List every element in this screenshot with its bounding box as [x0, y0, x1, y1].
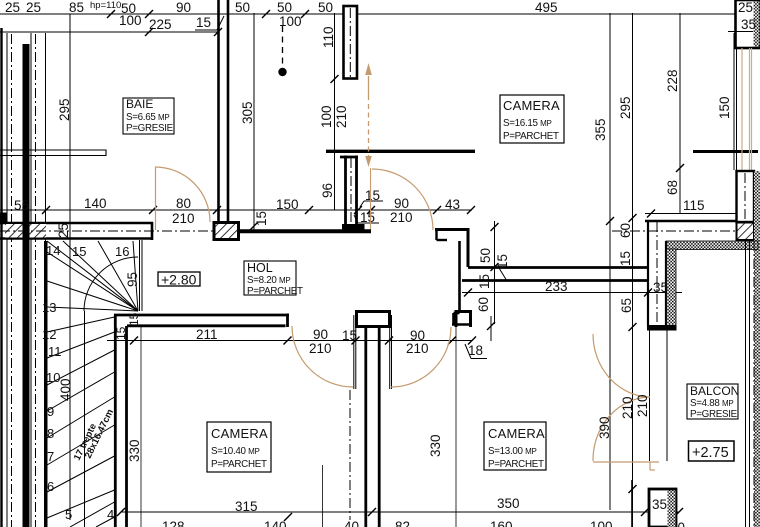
- balcony window (west): [650, 330, 668, 461]
- door jamb step: [437, 230, 448, 240]
- tan direction arrows: [368, 76, 370, 158]
- svg-text:13: 13: [42, 300, 56, 315]
- dim line x=254 (305): [253, 13, 255, 230]
- svg-text:8: 8: [47, 426, 54, 441]
- svg-text:15: 15: [618, 251, 633, 266]
- right side dim lines vertical: [610, 13, 680, 527]
- svg-text:65: 65: [619, 298, 634, 313]
- svg-text:BALCON: BALCON: [690, 384, 739, 398]
- svg-text:390: 390: [597, 416, 612, 439]
- right exterior wall bottom: [746, 241, 750, 527]
- svg-text:15: 15: [342, 328, 357, 343]
- ticks on y=210: [42, 206, 475, 214]
- svg-text:16: 16: [115, 244, 129, 259]
- svg-text:CAMERA: CAMERA: [211, 426, 268, 441]
- svg-text:6: 6: [47, 479, 54, 494]
- svg-text:100: 100: [119, 13, 142, 28]
- svg-text:BAIE: BAIE: [126, 97, 153, 111]
- right door jamb U wall: [455, 310, 473, 327]
- svg-text:+2.80: +2.80: [161, 272, 197, 288]
- svg-text:96: 96: [320, 183, 335, 198]
- wall x 344-358 (y 155-233): [340, 156, 358, 231]
- svg-text:68: 68: [665, 180, 680, 195]
- svg-text:211: 211: [196, 327, 218, 342]
- svg-text:S=4.88 MP: S=4.88 MP: [690, 398, 733, 409]
- BAIE south wall band: [0, 222, 153, 240]
- HOL north wall line: [239, 229, 371, 233]
- stairs lower flight treads: [47, 317, 115, 527]
- closet wall rectangle (top center): [344, 6, 358, 79]
- dim extension verticals bottom: [141, 326, 632, 527]
- top dim texts: [5, 0, 558, 32]
- svg-text:95: 95: [125, 272, 140, 287]
- svg-text:82: 82: [395, 519, 410, 527]
- CAMERA 10.40 west wall: [115, 314, 126, 527]
- svg-text:140: 140: [84, 196, 107, 211]
- leader under 15 (top): [195, 16, 224, 30]
- svg-text:hp=110: hp=110: [90, 0, 121, 11]
- balcony north wall band: [645, 220, 736, 223]
- svg-text:25: 25: [5, 0, 20, 15]
- svg-text:25: 25: [26, 0, 41, 15]
- right hatch square: [737, 223, 755, 241]
- svg-text:50: 50: [235, 0, 250, 15]
- svg-text:35: 35: [652, 497, 667, 512]
- left edge pier stub: [0, 213, 8, 224]
- svg-text:35: 35: [653, 280, 668, 295]
- axis dash-dot lines left: [12, 34, 36, 527]
- svg-text:495: 495: [535, 0, 558, 15]
- CAMERA 10.40 label box: [207, 422, 271, 472]
- axis dash-dot x=350 bottom: [349, 390, 351, 520]
- svg-text:14: 14: [46, 243, 60, 258]
- svg-text:210: 210: [172, 211, 195, 226]
- BAIE west wall face: [45, 33, 47, 241]
- svg-text:P=PARCHET: P=PARCHET: [488, 459, 544, 470]
- CAMERA 13.00 label box: [484, 422, 546, 470]
- svg-text:160: 160: [490, 519, 513, 527]
- shaft partition lines in BAIE: [0, 150, 106, 157]
- right lower door leaf + arc: [390, 315, 392, 389]
- ceiling lamp dashed line + dot: [282, 26, 284, 66]
- svg-text:295: 295: [57, 98, 72, 121]
- svg-text:5: 5: [65, 507, 72, 522]
- svg-text:15: 15: [196, 15, 211, 30]
- 15 leader lines: [499, 268, 521, 281]
- stair numbers: [42, 243, 140, 522]
- svg-text:15: 15: [127, 312, 141, 326]
- axis dash-dot y=231: [0, 230, 752, 232]
- svg-text:330: 330: [428, 434, 443, 457]
- 50 dim right of wall: [494, 221, 496, 324]
- svg-text:315: 315: [235, 499, 258, 514]
- svg-text:210: 210: [309, 341, 332, 356]
- svg-text:25: 25: [56, 223, 71, 238]
- svg-text:43: 43: [445, 197, 460, 212]
- svg-text:355: 355: [593, 118, 608, 141]
- svg-text:90: 90: [394, 196, 409, 211]
- hatch in BAIE south wall (left): [5, 224, 46, 238]
- stair walk line arc: [84, 257, 138, 311]
- balcony door (tan double casement): [593, 334, 659, 470]
- BAIE door arc: [155, 167, 210, 222]
- 295 label (left): [56, 98, 73, 401]
- 15 underlines near closet wall: [354, 201, 383, 223]
- svg-text:150: 150: [717, 96, 732, 119]
- svg-text:305: 305: [240, 101, 255, 124]
- top right wall line y=151: [693, 150, 758, 153]
- center-left wall (double): [219, 0, 229, 222]
- svg-text:210: 210: [635, 394, 650, 417]
- svg-text:100: 100: [319, 105, 334, 128]
- svg-text:S=16.15 MP: S=16.15 MP: [503, 118, 552, 129]
- T-wall between lower rooms: [357, 312, 390, 327]
- svg-text:140: 140: [264, 519, 287, 527]
- hatched pier: [214, 223, 239, 240]
- HOL east wall lower face: [452, 241, 470, 325]
- svg-text:+2.75: +2.75: [692, 445, 729, 461]
- right wall box y 171-222: [737, 171, 755, 222]
- svg-text:210: 210: [390, 210, 413, 225]
- svg-text:330: 330: [127, 439, 142, 462]
- svg-text:295: 295: [618, 96, 633, 119]
- main left wall (solid): [23, 44, 30, 527]
- +2.80 level box: [158, 272, 200, 288]
- svg-text:90: 90: [176, 0, 191, 15]
- svg-text:11: 11: [48, 344, 62, 359]
- HOL south wall band (left part): [114, 314, 289, 328]
- svg-text:85: 85: [69, 0, 84, 15]
- svg-text:P=GRESIE: P=GRESIE: [126, 123, 174, 134]
- svg-text:15: 15: [114, 326, 128, 340]
- svg-text:CAMERA: CAMERA: [488, 426, 545, 441]
- right stipple band: [754, 171, 760, 527]
- 18 leader: [465, 316, 491, 359]
- svg-text:55: 55: [14, 198, 29, 213]
- balcony west upper wall: [648, 221, 666, 326]
- stair walk line (vertical): [84, 311, 86, 527]
- svg-text:115: 115: [683, 198, 705, 213]
- svg-text:S=8.20 MP: S=8.20 MP: [247, 275, 290, 286]
- svg-text:12: 12: [42, 327, 56, 342]
- svg-text:233: 233: [545, 279, 568, 294]
- svg-text:P=PARCHET: P=PARCHET: [503, 131, 559, 142]
- 17 trepte text: [72, 408, 116, 463]
- svg-text:128: 128: [162, 519, 185, 527]
- svg-text:15: 15: [254, 211, 269, 226]
- svg-text:50: 50: [478, 248, 493, 263]
- right window (tan): [736, 48, 738, 170]
- svg-text:60: 60: [476, 297, 491, 312]
- 211 dim line: [107, 340, 472, 342]
- svg-text:40: 40: [344, 519, 359, 527]
- svg-text:210: 210: [620, 396, 635, 419]
- svg-text:100: 100: [590, 519, 613, 527]
- BAIE label box: [123, 97, 174, 134]
- svg-text:25: 25: [738, 0, 753, 15]
- svg-text:35: 35: [741, 17, 756, 32]
- stair inner rail: [140, 240, 143, 311]
- left lower door leaf + arc: [354, 315, 356, 389]
- svg-text:15: 15: [72, 244, 86, 259]
- 233 dim: [462, 292, 682, 294]
- bottom cut-off dim texts: [162, 519, 685, 527]
- HOL east wall upper: [435, 228, 470, 267]
- svg-text:50: 50: [318, 0, 333, 15]
- corridor wall band (233): [462, 268, 648, 281]
- 330 labels: [127, 434, 443, 462]
- svg-text:7: 7: [47, 449, 54, 464]
- svg-text:60: 60: [618, 223, 633, 238]
- svg-text:150: 150: [276, 197, 299, 212]
- 15 labels at wall corner: [114, 312, 141, 340]
- svg-text:CAMERA: CAMERA: [503, 98, 560, 113]
- stairs upper winder fan: [47, 241, 138, 311]
- svg-text:S=10.40 MP: S=10.40 MP: [211, 446, 260, 457]
- svg-text:HOL: HOL: [247, 261, 273, 275]
- 115 dim: [645, 213, 746, 215]
- svg-text:50: 50: [277, 0, 292, 15]
- dim line y=210 (55/140/80/150): [0, 209, 472, 211]
- right rotated dims: [593, 69, 732, 313]
- dim texts row y~200: [14, 188, 460, 226]
- center wall line y=151: [326, 150, 475, 153]
- bottom right pier: [649, 489, 676, 527]
- svg-text:210: 210: [334, 105, 349, 128]
- top dimension line: [0, 14, 735, 32]
- +2.75 level box: [689, 441, 735, 461]
- bottom dim line 315/350: [121, 511, 679, 513]
- HOL label box: [244, 261, 303, 297]
- svg-text:350: 350: [497, 496, 520, 511]
- svg-text:P=PARCHET: P=PARCHET: [211, 459, 267, 470]
- top right corner wall box: [736, 0, 760, 48]
- balcony west stipple wall: [667, 249, 677, 326]
- svg-text:S=6.65 MP: S=6.65 MP: [126, 112, 169, 123]
- dim line x=334.5 (110/100/96): [334, 13, 336, 210]
- CAMERA 16.15 label box: [500, 95, 564, 143]
- svg-text:210: 210: [406, 341, 429, 356]
- svg-text:10: 10: [46, 370, 60, 385]
- stair west wall (solid): [44, 241, 48, 527]
- svg-text:S=13.00 MP: S=13.00 MP: [488, 446, 537, 457]
- svg-text:80: 80: [176, 196, 191, 211]
- left exterior wall lines: [0, 28, 2, 527]
- svg-text:90: 90: [313, 327, 328, 342]
- BAIE door leaf: [155, 167, 157, 230]
- svg-text:110: 110: [321, 26, 336, 48]
- tick marks top dim: [107, 10, 309, 36]
- BALCON label box: [687, 384, 739, 420]
- svg-text:225: 225: [149, 17, 172, 32]
- svg-text:228: 228: [665, 69, 680, 92]
- svg-text:4: 4: [107, 507, 114, 522]
- HOL top door leaf + arc: [370, 168, 372, 229]
- svg-text:P=PARCHET: P=PARCHET: [247, 286, 303, 297]
- dim line vertical x=70 (295/400): [69, 14, 71, 520]
- svg-text:P=GRESIE: P=GRESIE: [690, 409, 738, 420]
- svg-text:9: 9: [47, 404, 54, 419]
